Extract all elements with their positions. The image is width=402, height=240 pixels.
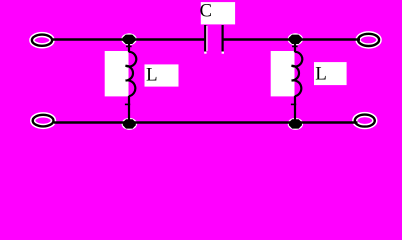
node C halo (bottom-left junction) [122, 118, 137, 130]
capacitor C left plate [204, 25, 206, 52]
node B (top-right junction dot) [289, 35, 302, 44]
node D halo (bottom-right junction) [288, 118, 303, 130]
inductor L1 top pin tick [126, 45, 132, 47]
svg-text:C: C [200, 1, 212, 21]
label box C [200, 1, 236, 24]
terminal P4 ring (bottom-right port) [355, 115, 375, 127]
terminal P4 halo (bottom-right port) [355, 115, 375, 127]
node A (top-left junction dot) [123, 35, 136, 44]
inductor L1 coil (left shunt coil) [126, 52, 137, 96]
terminal P1 ring (top-left port) [32, 35, 52, 46]
inductor L1 bottom pin tick [125, 103, 130, 105]
terminal P3 ring (bottom-left port) [33, 115, 54, 127]
capacitor C right plate [222, 25, 224, 52]
node D (bottom-right junction dot) [289, 119, 302, 128]
terminal P2 halo (top-right port) [358, 34, 379, 46]
node A halo (top-left junction) [121, 33, 136, 45]
terminal P2 ring (top-right port) [358, 34, 379, 46]
terminal P1 halo (top-left port) [32, 35, 52, 46]
wire right inductor top stub [294, 40, 296, 53]
label box L (left) [145, 64, 179, 86]
inductor L1 symbol white backplate [105, 51, 129, 96]
inductor L2 bottom pin tick [291, 103, 296, 105]
inductor L2 coil (right shunt coil) [292, 52, 303, 96]
capacitor C plate highlight streak [206, 26, 208, 51]
wire top rail left segment [53, 38, 205, 40]
svg-text:L: L [315, 63, 327, 84]
svg-text:L: L [146, 65, 158, 86]
wire left inductor bottom segment [128, 96, 130, 124]
wire left inductor top stub [128, 40, 130, 53]
label box L (right) [314, 62, 347, 85]
wire right inductor bottom segment [294, 96, 296, 124]
wire top rail right segment [224, 38, 361, 40]
wire bottom rail [54, 121, 358, 123]
node C (bottom-left junction dot) [123, 119, 136, 128]
terminal P3 halo (bottom-left port) [33, 115, 54, 127]
inductor L2 symbol white backplate [271, 51, 295, 96]
inductor L2 top pin tick [292, 45, 298, 47]
node B halo (top-right junction) [288, 33, 303, 45]
capacitor C right pin end marker [222, 52, 224, 54]
capacitor C left pin end marker [204, 52, 206, 54]
